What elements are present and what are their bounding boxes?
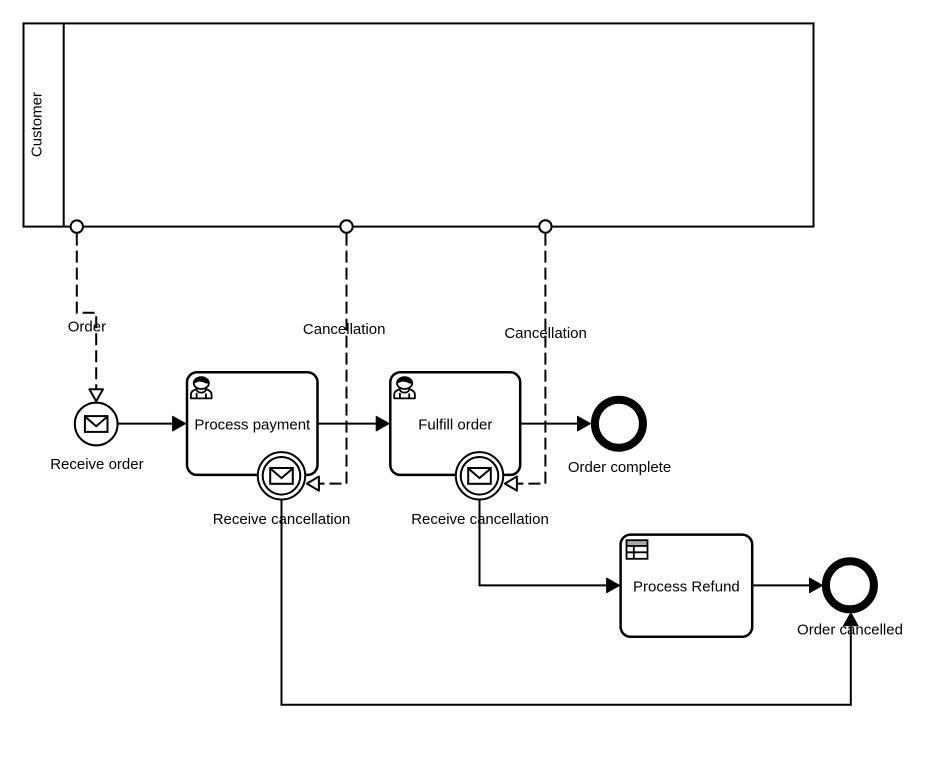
business rule task icon	[627, 540, 648, 559]
svg-text:Order cancelled: Order cancelled	[797, 621, 903, 638]
svg-text:Fulfill order: Fulfill order	[418, 416, 492, 433]
svg-text:Cancellation: Cancellation	[303, 321, 386, 338]
boundary event Receive cancellation 2	[411, 452, 549, 528]
message flow Order: pool to start event	[68, 220, 106, 401]
svg-text:Receive order: Receive order	[50, 456, 143, 473]
task Process Refund	[621, 535, 753, 637]
svg-text:Receive cancellation: Receive cancellation	[213, 511, 351, 528]
participant pool Customer	[24, 23, 814, 226]
end event Order cancelled	[797, 561, 903, 638]
task Fulfill order	[390, 372, 520, 475]
boundary event Receive cancellation 1	[213, 452, 351, 528]
svg-text:Customer: Customer	[29, 92, 46, 157]
sequence flow: start event to Process payment	[119, 416, 186, 431]
sequence flow: Process Refund to Order cancelled	[752, 578, 822, 593]
user task icon 2	[394, 377, 415, 398]
svg-text:Process payment: Process payment	[194, 416, 311, 433]
svg-text:Order complete: Order complete	[568, 459, 671, 476]
user task icon 1	[191, 377, 212, 398]
start event Receive order	[50, 403, 143, 474]
svg-text:Process Refund: Process Refund	[633, 578, 740, 595]
sequence flow: boundary event 1 to Order cancelled (bottom route)	[282, 500, 859, 705]
message flow Cancellation 1: pool to boundary event 1	[303, 220, 386, 490]
task Process payment	[187, 372, 318, 475]
sequence flow: Process payment to Fulfill order	[318, 416, 390, 431]
sequence flow: Fulfill order to Order complete	[520, 416, 590, 431]
message flow Cancellation 2: pool to boundary event 2	[504, 220, 587, 490]
svg-text:Order: Order	[68, 318, 106, 335]
sequence flow: boundary event 2 to Process Refund	[480, 500, 620, 593]
end event Order complete	[568, 400, 671, 476]
svg-text:Receive cancellation: Receive cancellation	[411, 511, 549, 528]
svg-text:Cancellation: Cancellation	[504, 325, 587, 342]
